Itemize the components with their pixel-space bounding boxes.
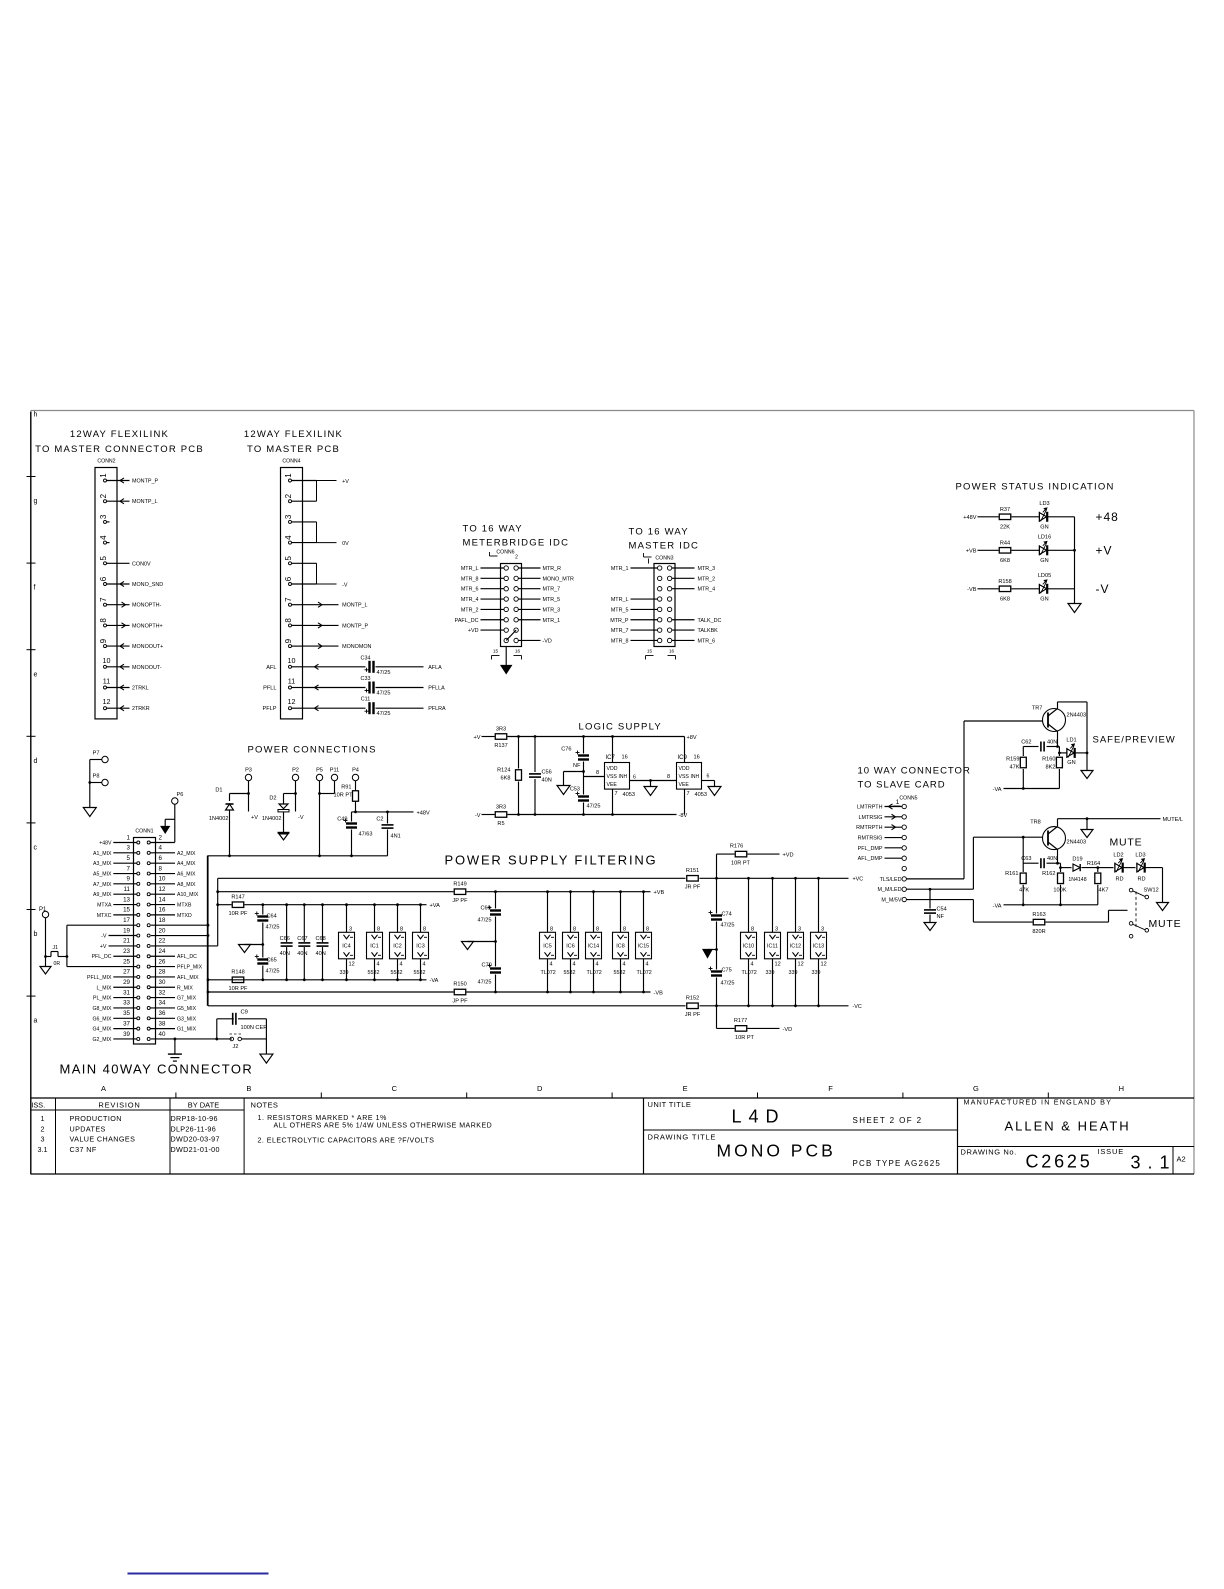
svg-text:D19: D19 xyxy=(1072,857,1082,863)
svg-text:A5_MIX: A5_MIX xyxy=(93,872,112,878)
svg-text:VEE: VEE xyxy=(607,782,618,788)
svg-text:47/63: 47/63 xyxy=(359,832,373,838)
svg-text:VALUE CHANGES: VALUE CHANGES xyxy=(70,1135,136,1144)
svg-text:10: 10 xyxy=(288,656,296,665)
svg-text:47/25: 47/25 xyxy=(266,969,280,975)
svg-text:10: 10 xyxy=(103,656,111,665)
resistor R151 JR PF xyxy=(687,876,699,882)
svg-text:PL_MIX: PL_MIX xyxy=(93,996,112,1002)
wire P2 down to -V xyxy=(295,781,297,812)
resistor R176 10R PT to +VD xyxy=(716,854,718,878)
capacitor C65 47/25 xyxy=(257,958,268,960)
CONN3 pin pair row 4 xyxy=(658,597,662,601)
svg-text:POWER CONNECTIONS: POWER CONNECTIONS xyxy=(248,745,377,756)
svg-text:P11: P11 xyxy=(330,768,340,774)
svg-text:3: 3 xyxy=(127,845,131,852)
svg-text:6K8: 6K8 xyxy=(501,776,511,782)
svg-text:-V: -V xyxy=(475,813,481,819)
svg-text:A6_MIX: A6_MIX xyxy=(177,872,196,878)
svg-text:G1_MIX: G1_MIX xyxy=(177,1027,197,1033)
LED LD2 RD xyxy=(1114,863,1116,873)
svg-text:G8_MIX: G8_MIX xyxy=(92,1006,112,1012)
svg-text:R149: R149 xyxy=(453,882,466,888)
CONN4 pin 7 wire to MONTP_L xyxy=(303,604,339,606)
svg-text:DWD21-01-00: DWD21-01-00 xyxy=(171,1145,220,1154)
svg-text:4: 4 xyxy=(159,845,163,852)
plus supply vertical bus xyxy=(217,878,219,946)
svg-text:TALK_DC: TALK_DC xyxy=(698,618,722,624)
svg-text:R162: R162 xyxy=(1042,871,1055,877)
svg-text:f: f xyxy=(34,585,36,592)
svg-text:JP PF: JP PF xyxy=(452,898,468,904)
svg-text:L_MIX: L_MIX xyxy=(97,985,113,991)
svg-text:6: 6 xyxy=(707,774,710,780)
svg-text:+48V: +48V xyxy=(99,841,112,847)
CONN1 pin2 wire from P6 xyxy=(150,842,175,844)
svg-text:POWER SUPPLY FILTERING: POWER SUPPLY FILTERING xyxy=(445,853,658,868)
CONN4 pin 8 wire to MONTP_P xyxy=(303,624,339,626)
svg-text:-VB: -VB xyxy=(967,587,977,593)
capacitor C68 40N xyxy=(322,905,324,942)
svg-text:IC13: IC13 xyxy=(813,944,824,950)
svg-text:C54: C54 xyxy=(937,907,947,913)
ground (C69/C70) xyxy=(462,942,474,950)
ground (power status) xyxy=(1068,604,1081,613)
svg-text:2N4403: 2N4403 xyxy=(1067,840,1087,846)
net -VA (safe) xyxy=(1004,788,1060,790)
-VC bus after R152 xyxy=(700,1005,849,1007)
svg-text:37: 37 xyxy=(123,1020,130,1027)
ground (C54) xyxy=(924,923,936,931)
svg-text:MTR_2: MTR_2 xyxy=(698,576,716,582)
svg-text:23: 23 xyxy=(123,948,130,955)
svg-text:C: C xyxy=(392,1084,398,1093)
svg-text:P3: P3 xyxy=(245,768,252,774)
ground (J2/C9) xyxy=(260,1054,273,1063)
CONN4 pins 5-6 bracket wire to -V xyxy=(316,563,318,584)
op-amp IC3 5532 xyxy=(420,905,422,933)
svg-text:8: 8 xyxy=(423,926,426,932)
jumper J2 xyxy=(230,1037,234,1041)
svg-text:b: b xyxy=(34,931,38,938)
svg-text:47K: 47K xyxy=(1019,888,1029,894)
svg-text:1N4148: 1N4148 xyxy=(1068,877,1086,883)
svg-text:AFL_DC: AFL_DC xyxy=(177,954,197,960)
svg-text:L4D: L4D xyxy=(732,1107,786,1127)
svg-text:8: 8 xyxy=(646,926,649,932)
svg-text:MTR_R: MTR_R xyxy=(543,566,562,572)
resistor R147 10R PF xyxy=(232,902,244,908)
svg-text:MTR_4: MTR_4 xyxy=(698,587,716,593)
border frame right line xyxy=(1193,411,1195,1175)
svg-text:R91: R91 xyxy=(341,785,351,791)
net -VA (mute) xyxy=(1004,904,1098,906)
svg-text:MTR_6: MTR_6 xyxy=(698,638,716,644)
svg-text:5532: 5532 xyxy=(368,970,380,976)
transistor TR8 2N4403 xyxy=(1043,827,1066,850)
wire J2 to ground xyxy=(242,1038,267,1040)
svg-text:R137: R137 xyxy=(494,743,507,749)
svg-text:MTR_2: MTR_2 xyxy=(461,607,479,613)
svg-text:-8V: -8V xyxy=(679,813,688,819)
svg-text:CONN1: CONN1 xyxy=(135,829,153,835)
ground (D2) xyxy=(283,812,285,832)
op-amp IC14 TL072 xyxy=(593,892,595,933)
svg-text:2: 2 xyxy=(99,493,108,498)
svg-text:MTR_7: MTR_7 xyxy=(543,587,561,593)
op-amp IC6 5532 xyxy=(570,892,572,933)
svg-text:16: 16 xyxy=(669,649,675,654)
op-amp IC13 339 xyxy=(818,878,820,932)
resistor R152 JR PF xyxy=(687,1003,699,1009)
svg-text:a: a xyxy=(34,1018,38,1025)
svg-text:-VB: -VB xyxy=(654,991,664,997)
svg-text:339: 339 xyxy=(812,970,821,976)
svg-text:47/25: 47/25 xyxy=(377,670,391,676)
capacitor C63 40N xyxy=(1040,858,1042,868)
svg-text:9: 9 xyxy=(284,638,293,643)
svg-text:NOTES: NOTES xyxy=(251,1101,279,1110)
svg-text:AFL: AFL xyxy=(266,665,276,671)
CONN5 pin 8 TLS/LED xyxy=(902,877,906,881)
svg-text:TL072: TL072 xyxy=(637,970,652,976)
svg-text:5532: 5532 xyxy=(614,970,626,976)
svg-text:C69: C69 xyxy=(481,906,491,912)
svg-text:A1_MIX: A1_MIX xyxy=(93,851,112,857)
svg-text:MTR_L: MTR_L xyxy=(611,597,629,603)
svg-text:22: 22 xyxy=(159,938,166,945)
svg-text:A3_MIX: A3_MIX xyxy=(93,861,112,867)
svg-text:12: 12 xyxy=(159,886,166,893)
svg-text:SW12: SW12 xyxy=(1144,888,1159,894)
CONN3 pin pair row 1 xyxy=(658,566,662,570)
pad P11 xyxy=(331,774,337,780)
capacitor C53 47/25 xyxy=(578,795,589,797)
svg-text:A2_MIX: A2_MIX xyxy=(177,851,196,857)
capacitor C2 4N1 xyxy=(387,812,389,824)
pad P2 xyxy=(292,774,298,780)
svg-text:-VC: -VC xyxy=(853,1004,862,1010)
svg-text:AFL_MIX: AFL_MIX xyxy=(177,975,199,981)
wire C74-C75 with ground arrow xyxy=(716,922,718,970)
net +V at CONN1 pin21 xyxy=(109,945,137,947)
svg-text:R160: R160 xyxy=(1042,757,1055,763)
svg-text:C2: C2 xyxy=(376,817,383,823)
op-amp IC5 TL072 xyxy=(547,892,549,933)
svg-text:8: 8 xyxy=(99,618,108,623)
svg-text:R5: R5 xyxy=(497,821,504,827)
resistor R162 100K xyxy=(1060,863,1062,872)
svg-text:CON0V: CON0V xyxy=(132,561,151,567)
+48V line xyxy=(352,811,414,813)
svg-text:BY DATE: BY DATE xyxy=(188,1101,219,1110)
svg-text:7: 7 xyxy=(687,791,690,797)
svg-text:MANUFACTURED IN ENGLAND BY: MANUFACTURED IN ENGLAND BY xyxy=(964,1098,1113,1107)
connector CONN4 body xyxy=(281,468,303,719)
svg-text:INH: INH xyxy=(619,774,628,780)
svg-text:3: 3 xyxy=(775,926,778,932)
wire R44 to LD16 xyxy=(1012,549,1040,551)
svg-text:2: 2 xyxy=(159,834,163,841)
minus supply vertical bus xyxy=(207,856,209,1006)
svg-text:4: 4 xyxy=(573,961,576,967)
svg-text:100N CER: 100N CER xyxy=(241,1025,268,1031)
svg-text:INH: INH xyxy=(691,774,700,780)
svg-text:CONN3: CONN3 xyxy=(655,556,673,562)
svg-text:11: 11 xyxy=(288,677,295,686)
svg-text:8: 8 xyxy=(550,926,553,932)
wire TLS/LED vertical to TR7 base xyxy=(963,721,965,879)
R150 rail xyxy=(208,991,454,993)
svg-text:LMTRPTH: LMTRPTH xyxy=(857,805,883,811)
wire R159-C62-R160 node xyxy=(1023,746,1038,748)
svg-text:G5_MIX: G5_MIX xyxy=(177,1006,197,1012)
svg-text:C11: C11 xyxy=(361,697,371,703)
CONN4 pin 9 wire to MONOMON xyxy=(303,645,339,647)
CONN1 pin20 wire to -bus vertical xyxy=(151,935,208,937)
wire P11 joins P5 xyxy=(334,781,336,794)
svg-text:MTR_3: MTR_3 xyxy=(543,607,561,613)
svg-text:24: 24 xyxy=(159,948,166,955)
wire P3 down to +V xyxy=(248,781,250,812)
svg-text:C68: C68 xyxy=(316,936,326,942)
svg-text:A9_MIX: A9_MIX xyxy=(93,892,112,898)
svg-text:13: 13 xyxy=(123,896,130,903)
LED LD3 RD xyxy=(1136,863,1138,873)
svg-text:MTXA: MTXA xyxy=(97,903,112,909)
svg-text:TO MASTER CONNECTOR PCB: TO MASTER CONNECTOR PCB xyxy=(35,444,204,455)
svg-text:6: 6 xyxy=(99,576,108,581)
svg-text:IC12: IC12 xyxy=(790,944,801,950)
svg-text:VEE: VEE xyxy=(679,782,690,788)
svg-text:IC8: IC8 xyxy=(616,944,624,950)
capacitor C34 47/25 xyxy=(368,661,370,673)
svg-text:40N: 40N xyxy=(280,951,290,957)
svg-text:9: 9 xyxy=(127,876,131,883)
svg-text:339: 339 xyxy=(340,970,349,976)
ground stub (mute collector) xyxy=(1086,819,1088,830)
resistor R159 47K xyxy=(1022,747,1024,757)
svg-text:JR PF: JR PF xyxy=(685,885,701,891)
earth ground (CONN1 pin40) xyxy=(174,1039,176,1054)
svg-text:47/25: 47/25 xyxy=(721,923,735,929)
svg-text:+V: +V xyxy=(100,944,107,950)
svg-text:ALLEN & HEATH: ALLEN & HEATH xyxy=(1005,1119,1131,1134)
svg-text:40N: 40N xyxy=(297,951,307,957)
svg-text:12: 12 xyxy=(349,961,355,967)
resistor R44 6K8 xyxy=(999,548,1011,554)
svg-text:2TRKR: 2TRKR xyxy=(132,706,150,712)
svg-text:9: 9 xyxy=(99,638,108,643)
svg-text:MONOPTH+: MONOPTH+ xyxy=(132,623,163,629)
-8V rail xyxy=(508,814,677,816)
svg-text:J1: J1 xyxy=(53,945,59,951)
svg-text:TO MASTER PCB: TO MASTER PCB xyxy=(247,444,340,455)
svg-text:GN: GN xyxy=(1040,596,1048,602)
svg-text:G: G xyxy=(973,1084,979,1093)
svg-text:PFL_DC: PFL_DC xyxy=(92,954,112,960)
svg-text:LD3: LD3 xyxy=(1039,501,1049,507)
svg-text:MTR_8: MTR_8 xyxy=(461,576,479,582)
svg-text:8: 8 xyxy=(596,926,599,932)
+VA rail xyxy=(245,904,427,906)
svg-text:PRODUCTION: PRODUCTION xyxy=(70,1114,122,1123)
svg-text:UPDATES: UPDATES xyxy=(70,1124,106,1133)
svg-text:16: 16 xyxy=(622,755,628,761)
ground (P1) xyxy=(40,967,51,975)
svg-text:LD3: LD3 xyxy=(1135,853,1145,859)
wire to LEDs xyxy=(1098,867,1114,869)
-VC long bus xyxy=(208,1005,686,1007)
TR8 collector wire to MUTE/L xyxy=(1058,818,1161,820)
svg-text:4N1: 4N1 xyxy=(391,834,401,840)
svg-text:39: 39 xyxy=(123,1031,130,1038)
svg-text:8: 8 xyxy=(377,926,380,932)
svg-text:MTR_L: MTR_L xyxy=(461,566,479,572)
svg-text:40N: 40N xyxy=(1047,740,1057,746)
svg-text:+VC: +VC xyxy=(853,877,864,883)
svg-text:DRAWING No.: DRAWING No. xyxy=(961,1148,1017,1157)
op-amp IC7 4053 xyxy=(605,763,630,790)
svg-text:C49: C49 xyxy=(337,817,347,823)
svg-text:M_M/LED: M_M/LED xyxy=(878,887,902,893)
svg-text:RMTRSIG: RMTRSIG xyxy=(858,836,883,842)
svg-text:IC10: IC10 xyxy=(743,944,754,950)
svg-text:32: 32 xyxy=(159,989,166,996)
svg-text:POWER STATUS INDICATION: POWER STATUS INDICATION xyxy=(956,482,1115,493)
wire R91 to +48V line xyxy=(355,801,357,812)
wire LD3 to ground xyxy=(1145,867,1163,869)
svg-text:VSS: VSS xyxy=(607,774,618,780)
svg-text:6K8: 6K8 xyxy=(1000,558,1010,564)
svg-text:+8V: +8V xyxy=(687,735,697,741)
wire pin 10 to capacitor C34 xyxy=(303,666,366,668)
resistor R161 47K xyxy=(1020,873,1026,884)
op-amp IC1 5532 xyxy=(374,905,376,933)
svg-text:MTXC: MTXC xyxy=(97,913,112,919)
svg-text:12: 12 xyxy=(775,961,781,967)
wire P7 P8 to ground xyxy=(90,759,102,761)
svg-text:A4_MIX: A4_MIX xyxy=(177,861,196,867)
+8V rail xyxy=(508,736,685,738)
stub with arrow (P6 branch) xyxy=(165,818,175,820)
svg-text:G6_MIX: G6_MIX xyxy=(92,1016,112,1022)
svg-text:PCB TYPE AG2625: PCB TYPE AG2625 xyxy=(853,1159,942,1168)
svg-text:1N4002: 1N4002 xyxy=(209,816,229,822)
svg-text:CONN2: CONN2 xyxy=(97,459,115,465)
wire bus down to CONN1 area xyxy=(206,856,208,1006)
svg-text:IC1: IC1 xyxy=(370,944,378,950)
jumper J1 0R xyxy=(46,956,52,958)
resistor R163 820R xyxy=(972,900,974,923)
svg-text:2. ELECTROLYTIC CAPACITORS AR: 2. ELECTROLYTIC CAPACITORS ARE ?F/VOLTS xyxy=(258,1138,435,1145)
CONN6 pin pair row 3 xyxy=(504,587,508,591)
border frame bottom line (title block bottom) xyxy=(31,1173,1195,1175)
CONN6 pin pair row 5 xyxy=(504,607,508,611)
resistor R137 3R3 xyxy=(495,734,507,740)
svg-text:NF: NF xyxy=(573,763,581,769)
svg-text:7: 7 xyxy=(284,597,293,602)
wire P4 to R91 xyxy=(355,781,357,791)
IC9 supply wires xyxy=(684,737,686,763)
svg-text:MTXD: MTXD xyxy=(177,913,192,919)
op-amp IC8 5532 xyxy=(620,892,622,933)
svg-text:MTR_4: MTR_4 xyxy=(461,597,479,603)
wire R163 to SW12 xyxy=(1046,921,1109,923)
svg-text:47/25: 47/25 xyxy=(478,918,492,924)
svg-text:6: 6 xyxy=(284,576,293,581)
svg-text:-VD: -VD xyxy=(543,638,552,644)
svg-text:G3_MIX: G3_MIX xyxy=(177,1016,197,1022)
svg-text:-VA: -VA xyxy=(430,978,439,984)
svg-text:3: 3 xyxy=(41,1135,45,1144)
connector CONN2 body xyxy=(95,468,117,719)
svg-text:CONN6: CONN6 xyxy=(496,550,514,556)
svg-text:40N: 40N xyxy=(316,951,326,957)
svg-text:MONO_MTR: MONO_MTR xyxy=(543,576,575,582)
op-amp IC12 339 xyxy=(795,878,797,932)
resistor R164 4K7 xyxy=(1097,868,1099,872)
svg-text:3: 3 xyxy=(798,926,801,932)
wire C76 to C53 junction xyxy=(583,762,585,795)
svg-text:ALL OTHERS ARE 5% 1/4W UNLESS: ALL OTHERS ARE 5% 1/4W UNLESS OTHERWISE … xyxy=(274,1123,493,1130)
IC7 supply wires xyxy=(612,737,614,763)
svg-text:MTR_1: MTR_1 xyxy=(543,618,561,624)
svg-text:A2: A2 xyxy=(1177,1155,1186,1164)
svg-text:C64: C64 xyxy=(267,914,277,920)
svg-text:GN: GN xyxy=(1067,760,1075,766)
svg-text:8: 8 xyxy=(284,618,293,623)
svg-text:E: E xyxy=(683,1084,688,1093)
CONN1 pin22 wire to +bus vertical xyxy=(151,945,218,947)
svg-text:8: 8 xyxy=(667,774,670,780)
svg-text:+V: +V xyxy=(251,815,258,821)
capacitor C69 47/25 xyxy=(495,892,497,909)
svg-text:40: 40 xyxy=(159,1031,166,1038)
capacitor C74 47/25 xyxy=(716,878,718,913)
svg-text:MONOMON: MONOMON xyxy=(342,644,371,650)
svg-text:C34: C34 xyxy=(361,655,371,661)
svg-text:7: 7 xyxy=(615,791,618,797)
CONN6 pin pair row 7 xyxy=(504,628,508,632)
svg-text:+48V: +48V xyxy=(963,515,976,521)
svg-text:MUTE: MUTE xyxy=(1149,918,1182,930)
CONN1 pin18 wire to -bus vertical xyxy=(151,924,208,926)
svg-text:3R3: 3R3 xyxy=(496,727,506,733)
capacitor C54 NF xyxy=(929,889,931,908)
resistor R124 6K8 vertical xyxy=(518,737,520,769)
svg-text:d: d xyxy=(34,758,38,765)
svg-text:IC6: IC6 xyxy=(566,944,574,950)
svg-text:1: 1 xyxy=(896,799,900,806)
resistor R150 JP PF xyxy=(454,989,466,995)
svg-text:MONTP_P: MONTP_P xyxy=(132,479,158,485)
capacitor C76 NF xyxy=(583,737,585,754)
svg-text:PAFL_DC: PAFL_DC xyxy=(455,618,479,624)
CONN5 pin 4 RMTRSIG xyxy=(902,835,906,839)
wire P3 branch to D1 xyxy=(230,793,249,795)
CONN6 ground wire with arrow xyxy=(505,647,507,666)
svg-text:3: 3 xyxy=(821,926,824,932)
svg-text:4K7: 4K7 xyxy=(1099,888,1109,894)
svg-text:B: B xyxy=(246,1084,251,1093)
svg-text:MONTP_L: MONTP_L xyxy=(132,499,157,505)
svg-text:P1: P1 xyxy=(39,907,47,913)
svg-text:MONOPTH-: MONOPTH- xyxy=(132,603,162,609)
svg-text:5532: 5532 xyxy=(391,970,403,976)
svg-text:PFLL_MIX: PFLL_MIX xyxy=(87,975,112,981)
op-amp IC2 5532 xyxy=(397,905,399,933)
